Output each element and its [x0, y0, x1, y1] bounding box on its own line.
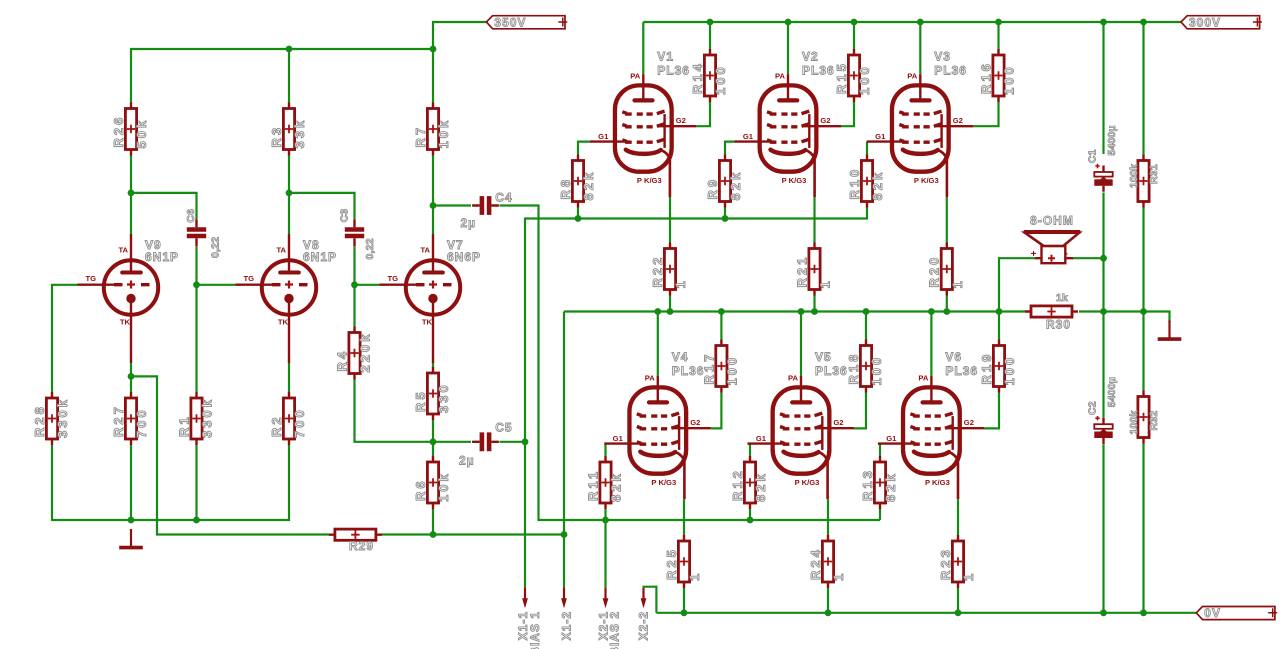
wire R4 bottom to C5 row: [355, 380, 434, 442]
wire R27 bottom drop: [130, 445, 132, 520]
junction C5 to X1-1 riser: [522, 438, 529, 445]
wire grid node to V7 grid: [355, 284, 380, 286]
junction output bus at C1 line: [1100, 308, 1107, 315]
wire R10 top to V3 G1: [866, 142, 868, 155]
junction 300V rail at R31: [1140, 19, 1147, 26]
junction ground bus at R1: [193, 517, 200, 524]
wire V4 cathode to R25: [683, 499, 685, 535]
svg-text:33k: 33k: [292, 118, 307, 149]
capacitor C6: [185, 209, 221, 258]
wire V2 plate drop: [787, 22, 789, 74]
junction 0V rail at R32: [1140, 609, 1147, 616]
wire C4 right to lower bias bus: [500, 206, 881, 521]
svg-text:5400µ: 5400µ: [1106, 377, 1118, 407]
wire output bus: [564, 310, 1025, 312]
tube V2: [735, 50, 842, 198]
svg-text:R32: R32: [1148, 411, 1160, 431]
wire V6 G1 to R13: [878, 444, 880, 456]
svg-text:1: 1: [673, 278, 688, 288]
wire R9 top to V2 G1: [725, 142, 735, 155]
svg-text:50k: 50k: [134, 118, 149, 149]
svg-text:BIAS 1: BIAS 1: [528, 611, 542, 649]
wire speaker right lead: [1072, 257, 1104, 259]
junction output bus at R18: [863, 308, 870, 315]
svg-text:R10: R10: [847, 167, 862, 200]
junction C5 node at R6: [430, 438, 437, 445]
wire R15 top drop: [853, 22, 855, 49]
supply flag 350V: [486, 15, 567, 29]
wire R17 top drop: [720, 312, 722, 340]
wire V3 plate drop: [919, 22, 921, 74]
junction 300V rail at R15: [851, 19, 858, 26]
svg-text:100: 100: [869, 355, 884, 386]
resistor R8: [558, 155, 596, 208]
wire R22 bottom to bus: [669, 296, 671, 312]
supply flag 300V: [1181, 15, 1262, 29]
capacitor C1: [1087, 125, 1118, 192]
wire cathode node to R27: [130, 376, 132, 392]
svg-text:R20: R20: [927, 255, 942, 288]
svg-text:1: 1: [818, 278, 833, 288]
resistor R13: [860, 456, 898, 509]
svg-text:V1: V1: [657, 50, 674, 64]
wire C3 bottom to grid node V7: [353, 246, 355, 284]
svg-text:2µ: 2µ: [461, 216, 477, 230]
wire X1-1 riser / upper bias bus: [525, 208, 867, 588]
svg-text:350V: 350V: [494, 15, 526, 29]
resistor R26: [111, 103, 149, 156]
wire V6 cathode to R23: [957, 499, 959, 535]
supply flag 0V: [1196, 606, 1277, 620]
svg-text:R21: R21: [794, 255, 809, 288]
resistor R1: [176, 392, 214, 445]
wire R30 right to ground corner: [1079, 312, 1170, 323]
svg-text:R22: R22: [650, 255, 665, 288]
wire R26 bottom to node: [130, 156, 132, 193]
junction feedback at X1-2: [561, 531, 568, 538]
junction 300V rail at C1: [1100, 19, 1107, 26]
svg-text:300V: 300V: [1189, 15, 1221, 29]
wire R12 bottom drop: [749, 509, 751, 520]
junction upper bias bus at R8: [575, 215, 582, 222]
svg-text:PL36: PL36: [657, 64, 690, 78]
junction output bus at R20: [943, 308, 950, 315]
resistor R15: [834, 49, 872, 102]
junction upper bias bus at R9: [722, 215, 729, 222]
svg-text:R19: R19: [979, 352, 994, 385]
svg-text:R11: R11: [585, 469, 600, 501]
connector pin X1-2: [560, 587, 574, 640]
junction 300V rail at R14: [707, 19, 714, 26]
junction node R7/C4/V7: [430, 202, 437, 209]
svg-text:R30: R30: [1046, 317, 1071, 331]
svg-text:330: 330: [436, 382, 451, 413]
junction output bus at R31/R32: [1140, 308, 1147, 315]
junction lower bias bus at R11: [602, 517, 609, 524]
wire C6 bottom to grid node V8: [195, 246, 197, 284]
svg-text:R13: R13: [860, 468, 875, 501]
svg-text:R25: R25: [664, 547, 679, 580]
resistor R31: [1128, 155, 1160, 208]
junction node R26/C6/V9: [128, 190, 135, 197]
svg-text:100: 100: [713, 64, 728, 95]
svg-text:10k: 10k: [436, 471, 451, 502]
wire C1 top drop: [1102, 22, 1104, 154]
junction 0V rail at R25: [681, 609, 688, 616]
connector pin X1-1 BIAS 1: [516, 587, 542, 649]
wire C2 bottom to 0V rail: [1102, 444, 1104, 613]
junction 300V rail at V3: [917, 19, 924, 26]
svg-text:82k: 82k: [728, 170, 743, 201]
wire X2-1 drop: [604, 520, 606, 587]
svg-text:V4: V4: [672, 350, 689, 364]
svg-text:330k: 330k: [55, 397, 70, 438]
svg-text:1: 1: [950, 278, 965, 288]
wire R29 right to X1-2 line: [381, 533, 564, 535]
junction V7 grid node: [351, 281, 358, 288]
svg-text:R6: R6: [413, 478, 428, 501]
svg-text:100k: 100k: [1128, 164, 1140, 188]
wire V4 G2 to R17: [711, 393, 722, 429]
svg-text:8-OHM: 8-OHM: [1030, 214, 1074, 228]
wire R32 top drop: [1142, 312, 1144, 391]
junction output bus at R21: [811, 308, 818, 315]
wire R19 top drop: [998, 312, 1000, 340]
wire C5 left lead: [433, 441, 471, 443]
svg-text:PL36: PL36: [945, 364, 978, 378]
svg-text:R8: R8: [558, 177, 573, 200]
wire V3 cathode to R20: [946, 197, 948, 242]
wire 350V rail riser: [433, 22, 486, 49]
wire C4 node to V7 anode: [432, 206, 434, 235]
wire R3 bottom to node: [288, 156, 290, 193]
wire R20 bottom to bus: [946, 296, 948, 312]
svg-text:C5: C5: [495, 421, 512, 435]
svg-text:82k: 82k: [883, 471, 898, 502]
wire 300V top rail: [643, 21, 1181, 23]
svg-text:6N1P: 6N1P: [145, 250, 179, 264]
svg-text:2µ: 2µ: [459, 454, 475, 468]
wire grid node to R4 top: [353, 285, 355, 327]
svg-text:R29: R29: [349, 539, 374, 553]
wire X1-2 riser: [563, 312, 565, 588]
junction V9 cathode node: [128, 373, 135, 380]
wire feedback takeoff: [131, 376, 329, 534]
junction 300V rail at R16: [995, 19, 1002, 26]
junction feedback at R6: [430, 531, 437, 538]
svg-text:1k: 1k: [1056, 292, 1068, 304]
svg-text:R15: R15: [834, 61, 849, 94]
resistor R14: [690, 49, 728, 102]
wire R1 bottom drop: [195, 445, 197, 520]
wire node to C6 top: [131, 193, 197, 219]
resistor R21: [794, 243, 832, 296]
capacitor C2: [1087, 377, 1118, 444]
wire V2 cathode to R21: [813, 197, 815, 242]
wire R7 bottom to C4 node: [432, 156, 434, 206]
svg-text:1: 1: [961, 571, 976, 581]
resistor R9: [705, 155, 743, 208]
resistor R3: [269, 103, 307, 156]
resistor R12: [730, 456, 768, 509]
svg-text:1: 1: [687, 571, 702, 581]
svg-text:10k: 10k: [436, 118, 451, 149]
resistor R5: [413, 367, 451, 420]
svg-text:R3: R3: [269, 125, 284, 148]
svg-text:R28: R28: [32, 404, 47, 437]
resistor R22: [650, 243, 688, 296]
tube V7: [380, 234, 482, 363]
wire R31 bottom to bus: [1142, 208, 1144, 312]
wire R24 bottom to rail: [827, 588, 829, 613]
junction 0V rail at R24: [825, 609, 832, 616]
wire node to V8 anode: [288, 193, 290, 234]
svg-text:PL36: PL36: [802, 64, 835, 78]
svg-text:100: 100: [1002, 64, 1017, 95]
junction output bus at R22: [667, 308, 674, 315]
svg-text:0V: 0V: [1204, 606, 1221, 620]
wire V1 G2 to R14: [696, 102, 710, 127]
svg-text:C1: C1: [1087, 149, 1099, 163]
wire C5 right lead: [500, 441, 526, 443]
svg-text:C4: C4: [495, 191, 512, 205]
wire node to V9 anode: [130, 193, 132, 234]
resistor R10: [847, 155, 885, 208]
svg-text:PL36: PL36: [672, 364, 705, 378]
wire C4 left lead: [433, 204, 471, 206]
wire V4 G1 to R11: [604, 444, 605, 456]
junction 300V rail at V2: [785, 19, 792, 26]
wire V5 G1 to R12: [748, 444, 751, 456]
junction speaker right at C1 line: [1100, 255, 1107, 262]
svg-text:100k: 100k: [1128, 410, 1140, 434]
resistor R32: [1128, 391, 1160, 444]
wire R9 bottom drop: [724, 208, 726, 219]
wire grid node to R1 top: [195, 285, 197, 392]
capacitor C3: [339, 209, 377, 260]
junction output bus at R17: [718, 308, 725, 315]
wire R25 bottom to rail: [683, 588, 685, 613]
connector pin X2-1 BIAS 2: [597, 587, 622, 649]
svg-text:R7: R7: [413, 125, 428, 148]
svg-text:+: +: [1031, 249, 1037, 260]
svg-text:R24: R24: [808, 547, 823, 580]
resistor R19: [979, 340, 1017, 393]
wire V5 plate drop: [800, 312, 802, 377]
svg-text:100: 100: [725, 355, 740, 386]
resistor R27: [111, 392, 149, 445]
svg-text:R14: R14: [690, 61, 705, 94]
junction HT rail at R3: [286, 46, 293, 53]
svg-text:PL36: PL36: [934, 64, 967, 78]
wire R21 bottom to bus: [813, 296, 815, 312]
ground left: [119, 529, 143, 548]
svg-text:C3: C3: [339, 209, 351, 223]
svg-text:700: 700: [134, 407, 149, 438]
svg-text:220k: 220k: [358, 332, 373, 373]
ground right: [1158, 321, 1182, 340]
svg-text:R4: R4: [334, 349, 349, 372]
tube V3: [867, 50, 974, 198]
svg-text:82k: 82k: [753, 471, 768, 502]
tube V4: [604, 350, 711, 499]
svg-text:R2: R2: [269, 414, 284, 437]
wire R6 bottom to feedback node: [432, 509, 434, 535]
capacitor C4: [461, 191, 513, 231]
svg-text:1: 1: [831, 571, 846, 581]
svg-text:R26: R26: [111, 115, 126, 148]
wire left ground bus: [52, 445, 289, 520]
resistor R25: [664, 535, 702, 588]
resistor R28: [32, 392, 70, 445]
wire V9 cathode to node: [130, 363, 132, 376]
junction node R3/C3/V8: [286, 190, 293, 197]
wire V5 cathode to R24: [827, 499, 829, 535]
wire V5 G2 to R18: [854, 393, 866, 429]
tube V6: [878, 350, 985, 499]
svg-text:0,22: 0,22: [209, 237, 221, 258]
wire V8 cathode to R2: [288, 363, 290, 392]
junction lower bias bus at R12: [747, 517, 754, 524]
svg-text:100: 100: [1002, 355, 1017, 386]
svg-text:R16: R16: [978, 61, 993, 94]
tube V8: [236, 234, 338, 363]
svg-text:R27: R27: [111, 404, 126, 437]
junction V8 grid node: [193, 281, 200, 288]
wire R3 top drop: [288, 49, 290, 103]
capacitor C5: [459, 421, 513, 468]
tube V5: [748, 350, 855, 499]
wire X2-2 to 0V rail: [644, 587, 657, 613]
wire V1 cathode to R22: [669, 197, 671, 242]
svg-text:C6: C6: [185, 209, 197, 223]
junction output bus at R19/speaker: [996, 308, 1003, 315]
wire R8 bottom drop: [577, 208, 579, 219]
svg-text:V2: V2: [802, 50, 819, 64]
wire left HT rail to R26: [131, 49, 433, 103]
svg-text:R31: R31: [1148, 164, 1160, 184]
wire R14 top drop: [709, 22, 711, 49]
junction HT rail at R7: [430, 46, 437, 53]
resistor R23: [938, 535, 976, 588]
resistor R16: [978, 49, 1016, 102]
svg-text:5400µ: 5400µ: [1106, 125, 1118, 155]
svg-text:V5: V5: [815, 350, 832, 364]
tube V1: [590, 50, 697, 198]
svg-text:V3: V3: [934, 50, 951, 64]
tube V9: [78, 234, 180, 363]
junction output bus at V4 plate: [654, 308, 661, 315]
resistor R24: [808, 535, 846, 588]
wire R18 top drop: [865, 312, 867, 340]
resistor R6: [413, 456, 451, 509]
svg-text:0,22: 0,22: [364, 238, 376, 259]
resistor R7: [413, 103, 451, 156]
svg-text:6N1P: 6N1P: [303, 250, 337, 264]
junction 0V rail at C2: [1100, 609, 1107, 616]
resistor R2: [269, 392, 307, 445]
svg-text:R5: R5: [413, 389, 428, 412]
junction output bus at V5 plate: [798, 308, 805, 315]
junction output bus at V6 plate: [928, 308, 935, 315]
svg-text:PL36: PL36: [815, 364, 848, 378]
wire R8 top to V1 G1: [578, 142, 590, 155]
resistor R30: [1025, 292, 1078, 332]
svg-text:700: 700: [292, 407, 307, 438]
wire R13 bottom drop: [879, 509, 881, 520]
wire V6 G2 to R19: [984, 393, 999, 429]
resistor R11: [585, 456, 623, 509]
wire R7 top drop: [432, 49, 434, 103]
svg-text:82k: 82k: [870, 170, 885, 201]
svg-text:-: -: [1065, 249, 1068, 260]
wire R11 bottom drop: [604, 509, 606, 520]
svg-text:BIAS 2: BIAS 2: [608, 611, 622, 649]
svg-text:C2: C2: [1087, 401, 1099, 415]
wire V7 cathode to R5: [432, 361, 434, 368]
svg-text:82k: 82k: [609, 471, 624, 502]
resistor R18: [846, 340, 884, 393]
connector pin X2-2: [637, 587, 651, 640]
wire R23 bottom to rail: [957, 588, 959, 613]
wire V9 grid to R28: [52, 285, 78, 392]
svg-text:82k: 82k: [581, 170, 596, 201]
svg-text:R1: R1: [176, 414, 191, 437]
wire grid node to V8 grid: [197, 284, 236, 286]
svg-text:R23: R23: [938, 547, 953, 580]
resistor R17: [701, 340, 739, 393]
wire C5 node to R6 top: [432, 442, 434, 456]
svg-text:6N6P: 6N6P: [447, 250, 481, 264]
svg-text:R12: R12: [730, 468, 745, 501]
wire C1 bottom to C2 top: [1102, 193, 1104, 418]
svg-text:X2-2: X2-2: [637, 611, 651, 640]
wire V4 plate drop: [657, 312, 659, 377]
resistor R4: [334, 327, 372, 380]
wire V2 G2 to R15: [841, 102, 854, 127]
wire R5 bottom to C5 node: [432, 420, 434, 442]
svg-text:100: 100: [857, 64, 872, 95]
wire R16 top drop: [997, 22, 999, 49]
speaker 8-OHM: [1024, 214, 1081, 264]
wire V6 plate drop: [930, 312, 932, 377]
wire R32 bottom to 0V rail: [1142, 444, 1144, 613]
wire 0V bottom rail: [656, 612, 1196, 614]
svg-text:V6: V6: [945, 350, 962, 364]
resistor R29: [329, 529, 382, 553]
resistor R20: [927, 243, 965, 296]
wire V3 G2 to R16: [973, 102, 998, 127]
svg-text:X1-2: X1-2: [560, 611, 574, 640]
wire speaker left lead: [999, 258, 1036, 311]
junction 0V rail at R23: [955, 609, 962, 616]
svg-text:330k: 330k: [200, 397, 215, 438]
wire V1 plate drop: [642, 22, 644, 74]
svg-text:R18: R18: [846, 352, 861, 385]
svg-text:R9: R9: [705, 177, 720, 200]
junction ground bus at R27: [128, 517, 135, 524]
wire node to C3 top: [289, 193, 355, 219]
wire R31 top drop: [1142, 22, 1144, 155]
